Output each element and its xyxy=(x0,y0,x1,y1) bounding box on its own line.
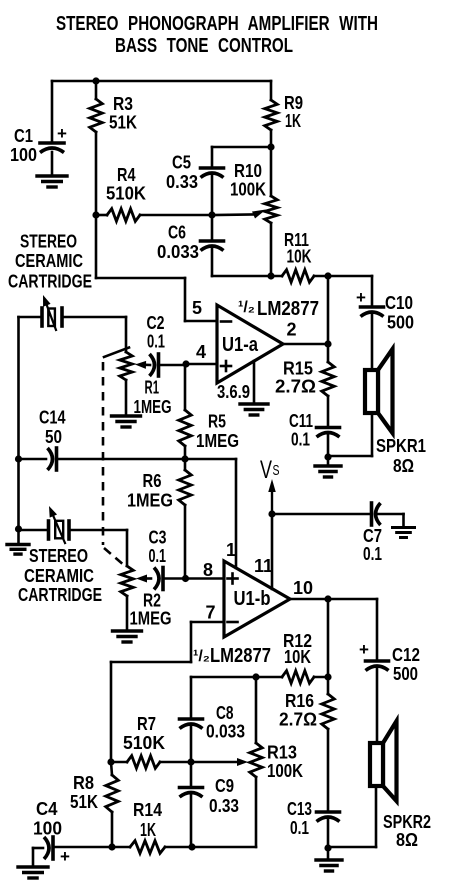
svg-text:+: + xyxy=(356,288,366,307)
svg-text:2: 2 xyxy=(287,320,297,340)
svg-text:STEREO: STEREO xyxy=(29,546,88,566)
svg-text:0.33: 0.33 xyxy=(209,796,239,816)
svg-text:+: + xyxy=(57,124,67,143)
svg-text:C1: C1 xyxy=(14,126,33,146)
svg-text:10K: 10K xyxy=(284,647,311,667)
svg-text:R9: R9 xyxy=(284,93,303,113)
svg-text:CARTRIDGE: CARTRIDGE xyxy=(18,585,102,605)
svg-text:1: 1 xyxy=(226,540,236,560)
svg-text:LM2877: LM2877 xyxy=(210,645,271,667)
svg-text:100K: 100K xyxy=(230,180,266,200)
svg-text:R5: R5 xyxy=(208,412,226,432)
svg-text:500: 500 xyxy=(387,313,414,333)
svg-text:2.7Ω: 2.7Ω xyxy=(275,377,316,397)
svg-text:0.1: 0.1 xyxy=(290,818,309,838)
svg-text:100: 100 xyxy=(33,819,62,839)
svg-text:4: 4 xyxy=(196,342,206,362)
svg-text:7: 7 xyxy=(206,603,216,623)
svg-text:CERAMIC: CERAMIC xyxy=(24,566,94,586)
svg-text:11: 11 xyxy=(254,556,273,576)
svg-text:51K: 51K xyxy=(70,792,98,812)
svg-text:C8: C8 xyxy=(216,703,234,723)
svg-text:5: 5 xyxy=(192,298,202,318)
svg-text:1K: 1K xyxy=(140,820,156,840)
svg-text:R15: R15 xyxy=(283,359,313,379)
svg-text:U1-a: U1-a xyxy=(222,334,259,356)
svg-text:C4: C4 xyxy=(36,799,58,819)
svg-text:C11: C11 xyxy=(289,411,313,431)
svg-text:8Ω: 8Ω xyxy=(393,456,414,476)
svg-text:3.6.9: 3.6.9 xyxy=(217,382,250,402)
svg-text:8: 8 xyxy=(203,560,213,580)
svg-text:R6: R6 xyxy=(143,471,162,491)
svg-text:8Ω: 8Ω xyxy=(396,830,418,850)
svg-text:R2: R2 xyxy=(143,591,161,611)
svg-text:1K: 1K xyxy=(285,111,301,131)
svg-text:SPKR2: SPKR2 xyxy=(383,812,431,832)
svg-text:R8: R8 xyxy=(73,773,94,793)
svg-text:C7: C7 xyxy=(363,526,382,546)
svg-text:SPKR1: SPKR1 xyxy=(376,436,426,456)
svg-text:1MEG: 1MEG xyxy=(196,431,239,451)
svg-text:R14: R14 xyxy=(133,800,162,820)
svg-text:1MEG: 1MEG xyxy=(127,491,173,511)
svg-text:51K: 51K xyxy=(109,113,137,133)
svg-text:R13: R13 xyxy=(267,743,297,763)
svg-text:+: + xyxy=(359,640,369,659)
svg-text:510K: 510K xyxy=(123,733,165,753)
svg-text:STEREO PHONOGRAPH AMPLIFIER WI: STEREO PHONOGRAPH AMPLIFIER WITH xyxy=(56,13,378,35)
svg-text:10K: 10K xyxy=(287,247,312,267)
svg-text:CERAMIC: CERAMIC xyxy=(15,251,83,271)
svg-text:50: 50 xyxy=(45,427,62,447)
svg-text:C2: C2 xyxy=(147,313,165,333)
svg-text:+: + xyxy=(60,847,70,866)
svg-text:BASS TONE CONTROL: BASS TONE CONTROL xyxy=(115,35,293,57)
svg-text:CARTRIDGE: CARTRIDGE xyxy=(8,272,92,292)
svg-text:10: 10 xyxy=(293,578,313,598)
svg-text:R16: R16 xyxy=(285,691,314,711)
svg-text:C13: C13 xyxy=(287,799,312,819)
svg-text:1MEG: 1MEG xyxy=(134,397,172,417)
svg-text:2.7Ω: 2.7Ω xyxy=(279,710,317,730)
svg-text:C9: C9 xyxy=(215,776,234,796)
svg-text:500: 500 xyxy=(393,664,418,684)
svg-text:R7: R7 xyxy=(137,714,156,734)
svg-text:¹/₂: ¹/₂ xyxy=(193,648,210,665)
svg-text:0.1: 0.1 xyxy=(363,544,382,564)
svg-text:R3: R3 xyxy=(113,94,133,114)
svg-text:C10: C10 xyxy=(385,293,413,313)
svg-text:R4: R4 xyxy=(117,165,136,185)
svg-text:0.1: 0.1 xyxy=(147,332,165,352)
svg-text:510K: 510K xyxy=(106,184,146,204)
svg-text:C14: C14 xyxy=(39,408,66,428)
svg-text:R10: R10 xyxy=(234,161,262,181)
svg-text:STEREO: STEREO xyxy=(20,232,77,252)
svg-text:C5: C5 xyxy=(172,153,191,173)
svg-text:0.1: 0.1 xyxy=(291,430,310,450)
svg-text:U1-b: U1-b xyxy=(234,588,271,610)
svg-text:0.1: 0.1 xyxy=(149,546,167,566)
svg-text:0.033: 0.033 xyxy=(206,722,245,742)
svg-text:S: S xyxy=(273,462,280,479)
svg-text:¹/₂: ¹/₂ xyxy=(238,299,255,316)
svg-text:100K: 100K xyxy=(267,761,303,781)
svg-text:1MEG: 1MEG xyxy=(130,609,172,629)
svg-text:0.33: 0.33 xyxy=(166,172,198,192)
svg-text:R1: R1 xyxy=(145,378,160,398)
svg-text:C6: C6 xyxy=(168,223,186,243)
svg-text:0.033: 0.033 xyxy=(157,242,199,262)
svg-text:V: V xyxy=(260,456,272,484)
svg-text:LM2877: LM2877 xyxy=(257,298,319,320)
svg-text:100: 100 xyxy=(10,145,37,165)
svg-text:C3: C3 xyxy=(149,528,167,548)
svg-text:C12: C12 xyxy=(392,645,420,665)
